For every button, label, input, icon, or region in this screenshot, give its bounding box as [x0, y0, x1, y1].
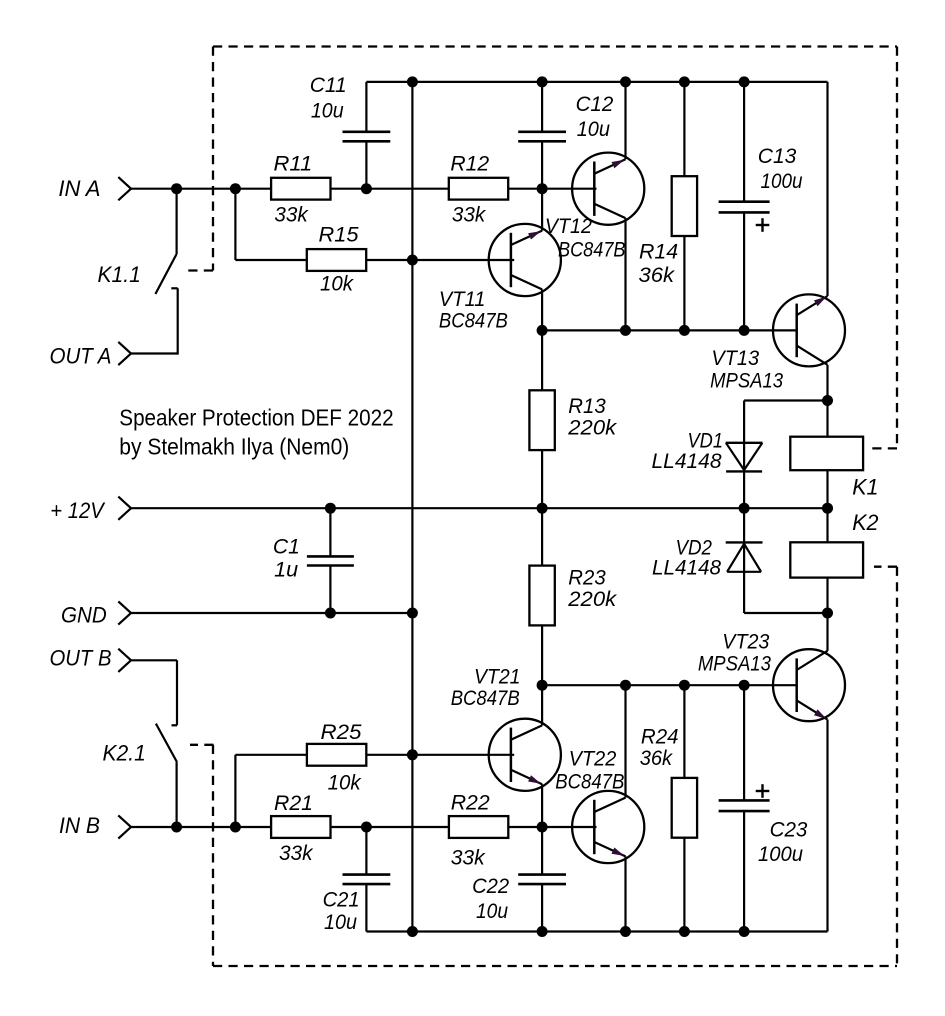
wire R15 feed [235, 189, 307, 260]
svg-text:MPSA13: MPSA13 [698, 652, 771, 676]
wire R15 to VT11 base [366, 259, 515, 261]
junction bus2 / VT22 collector [620, 680, 631, 691]
capacitor C1 [273, 508, 354, 613]
wire VT11 emitter lead [541, 289, 543, 330]
wire ground bus vertical [411, 82, 413, 932]
wire top ground rail [366, 81, 827, 83]
svg-text:R21: R21 [274, 791, 313, 815]
junction R21-R22 / C21 [361, 822, 372, 833]
svg-text:LL4148: LL4148 [652, 556, 721, 580]
transistor VT11 [439, 224, 561, 332]
diode VD2 (cathode up) [652, 508, 763, 613]
wire VT22 emitter lead [624, 856, 626, 931]
junction +12V / K1 / K2 [822, 503, 833, 514]
svg-text:K1: K1 [852, 475, 878, 500]
svg-text:by Stelmakh Ilya (Nem0): by Stelmakh Ilya (Nem0) [119, 433, 349, 459]
svg-text:R15: R15 [319, 223, 360, 247]
wire IN B to R21 [131, 826, 271, 828]
svg-text:1u: 1u [274, 558, 298, 582]
capacitor C21 [323, 827, 391, 934]
capacitor C11 [310, 73, 391, 189]
wire GND rail [131, 612, 412, 614]
junction IN B / K2.1 [171, 822, 182, 833]
resistor R15 [307, 223, 366, 296]
svg-text:10k: 10k [320, 272, 354, 296]
port GND [61, 601, 131, 627]
svg-text:VT21: VT21 [474, 665, 521, 689]
resistor R11 [271, 152, 330, 227]
svg-text:GND: GND [61, 603, 107, 628]
svg-text:C23: C23 [770, 818, 808, 842]
svg-text:C22: C22 [472, 874, 509, 898]
junction bus2 / R24 [679, 680, 690, 691]
svg-text:220k: 220k [567, 587, 617, 611]
wire R21 to R22 [331, 826, 449, 828]
wire VT23 collector lead [826, 613, 828, 651]
svg-text:C13: C13 [758, 144, 797, 168]
wire VT13 collector lead [826, 82, 828, 296]
svg-text:R13: R13 [568, 394, 605, 418]
junction +12V / C1 [325, 503, 336, 514]
svg-text:100u: 100u [761, 169, 803, 193]
svg-text:100u: 100u [758, 842, 803, 866]
resistor R13 [529, 330, 617, 508]
svg-text:10k: 10k [328, 771, 362, 795]
transistor VT13 [710, 294, 845, 392]
junction bottom rail / C23 [739, 926, 750, 937]
capacitor C22 [472, 827, 566, 932]
svg-text:BC847B: BC847B [451, 686, 520, 710]
junction IN A / K1.1 [171, 183, 182, 194]
junction VT13 emitter / K1 / VD1 [822, 395, 833, 406]
junction +12V / R13 / R23 [537, 503, 548, 514]
wire VT21 emitter lead [541, 784, 543, 827]
wire R12 to VT12 base [508, 188, 596, 190]
svg-text:MPSA13: MPSA13 [710, 368, 783, 392]
svg-text:33k: 33k [279, 841, 314, 865]
svg-text:BC847B: BC847B [555, 769, 624, 793]
svg-text:10u: 10u [577, 117, 610, 141]
junction R12 wire / C12 / VT11 collector [537, 183, 548, 194]
resistor R21 [271, 791, 330, 865]
svg-text:C12: C12 [576, 92, 614, 116]
svg-text:33k: 33k [451, 846, 486, 870]
svg-text:R22: R22 [451, 791, 490, 815]
svg-text:BC847B: BC847B [439, 308, 508, 332]
port IN A [58, 176, 131, 201]
svg-text:R24: R24 [641, 725, 679, 749]
svg-text:K2: K2 [852, 510, 879, 535]
capacitor C13 (polar) [719, 82, 803, 331]
resistor R24 [640, 685, 697, 931]
wire R11 to R12 [331, 188, 449, 190]
svg-text:VT13: VT13 [711, 346, 759, 370]
svg-text:33k: 33k [274, 203, 308, 227]
wire OUT B to K2.1 contact [131, 660, 177, 725]
junction IN B / R25 feed [230, 822, 241, 833]
svg-text:R12: R12 [450, 152, 489, 176]
wire VD2 to K2 bottom [744, 612, 827, 614]
svg-text:K1.1: K1.1 [98, 262, 141, 287]
junction bus1 / R14 [679, 325, 690, 336]
svg-text:OUT A: OUT A [50, 343, 112, 368]
wire VT21 collector lead [541, 685, 543, 725]
svg-text:C11: C11 [310, 73, 347, 97]
junction top rail / ground bus [407, 76, 418, 87]
junction bottom rail / ground bus [407, 926, 418, 937]
svg-text:OUT B: OUT B [50, 646, 112, 671]
svg-text:R14: R14 [639, 240, 678, 264]
transistor VT22 [555, 746, 644, 863]
resistor R14 [639, 82, 698, 331]
wire R25 feed [235, 755, 307, 827]
relay contact K2.1 [103, 724, 178, 827]
svg-text:+ 12V: + 12V [50, 498, 106, 523]
junction GND / ground bus [407, 608, 418, 619]
capacitor C23 (polar) [719, 685, 808, 931]
wire OUT A to K1.1 contact [131, 288, 178, 354]
port +12V [50, 497, 131, 523]
diode VD1 (cathode down) [652, 401, 763, 509]
svg-text:IN B: IN B [59, 813, 100, 838]
wire VT11 collector lead [541, 189, 543, 231]
wire VT12 collector lead [624, 82, 626, 159]
resistor R25 [307, 720, 366, 795]
junction K2 / VD2 / VT23 collector [822, 608, 833, 619]
junction R22 wire / C22 / VT21 emitter [537, 822, 548, 833]
junction bus1 / C13 [739, 325, 750, 336]
relay coil K1 [790, 401, 878, 509]
wire VT23 emitter lead [826, 720, 828, 932]
title text [119, 404, 393, 459]
svg-text:IN A: IN A [58, 176, 100, 201]
svg-text:BC847B: BC847B [558, 238, 626, 262]
junction top rail / C12 [537, 76, 548, 87]
svg-text:VT22: VT22 [569, 746, 617, 770]
svg-text:10u: 10u [311, 99, 344, 123]
junction IN A / R15 feed [230, 183, 241, 194]
junction R25 wire / ground bus [407, 749, 418, 760]
junction +12V / VD1 / VD2 [739, 503, 750, 514]
junction top rail / C13 [739, 76, 750, 87]
junction bottom rail / C22 [537, 926, 548, 937]
svg-text:K2.1: K2.1 [103, 741, 146, 766]
svg-text:33k: 33k [452, 203, 486, 227]
capacitor C12 [518, 82, 613, 189]
svg-text:10u: 10u [324, 910, 357, 934]
PCB board outline (dashed) [188, 47, 897, 967]
wire emitter bus top half [542, 329, 797, 331]
junction bus1 / VT11 emitter / R13 [537, 325, 548, 336]
wire VT12 emitter lead [624, 218, 626, 330]
svg-text:VT12: VT12 [545, 214, 592, 238]
resistor R12 [449, 152, 508, 227]
svg-text:36k: 36k [639, 263, 676, 287]
svg-text:36k: 36k [640, 746, 674, 770]
resistor R23 [529, 508, 617, 685]
wire +12V rail [131, 507, 828, 509]
transistor VT21 [451, 665, 561, 791]
resistor R22 [449, 791, 508, 870]
svg-text:R25: R25 [321, 720, 363, 744]
svg-text:R11: R11 [274, 152, 313, 176]
junction bus2 / R23 / VT21 collector [537, 680, 548, 691]
svg-text:VT23: VT23 [722, 630, 769, 654]
junction R15 wire / ground bus [407, 255, 418, 266]
svg-text:220k: 220k [567, 416, 617, 440]
wire R25 to VT21 base [366, 754, 514, 756]
wire bottom ground rail [366, 930, 827, 932]
junction bottom rail / VT22 emitter [620, 926, 631, 937]
wire R22 to VT22 base [508, 826, 596, 828]
transistor VT23 [698, 630, 845, 722]
svg-text:R23: R23 [568, 565, 605, 589]
junction bus2 / C23 [739, 680, 750, 691]
wire IN A to R11 [131, 188, 271, 190]
junction bottom rail / R24 [679, 926, 690, 937]
wire VT13 emitter lead [826, 365, 828, 401]
relay contact K1.1 [98, 189, 178, 294]
svg-text:C1: C1 [273, 535, 300, 559]
transistor VT12 [545, 153, 644, 262]
svg-text:C21: C21 [323, 888, 360, 912]
port OUT B [50, 646, 132, 672]
port OUT A [50, 342, 132, 368]
svg-text:10u: 10u [476, 899, 508, 923]
port IN B [59, 813, 131, 839]
wire VT22 collector lead [624, 685, 626, 797]
junction GND / C1 [325, 608, 336, 619]
junction bus1 / VT12 emitter [620, 325, 631, 336]
junction R11-R12 / C11 [361, 183, 372, 194]
svg-text:LL4148: LL4148 [652, 449, 722, 473]
wire base bus bottom half [542, 684, 797, 686]
wire VT13 emitter to VD1 [744, 399, 827, 401]
relay coil K2 [790, 508, 879, 613]
svg-text:Speaker Protection DEF 2022: Speaker Protection DEF 2022 [119, 404, 393, 430]
junction top rail / VT12 collector [620, 76, 631, 87]
junction top rail / R14 [679, 76, 690, 87]
